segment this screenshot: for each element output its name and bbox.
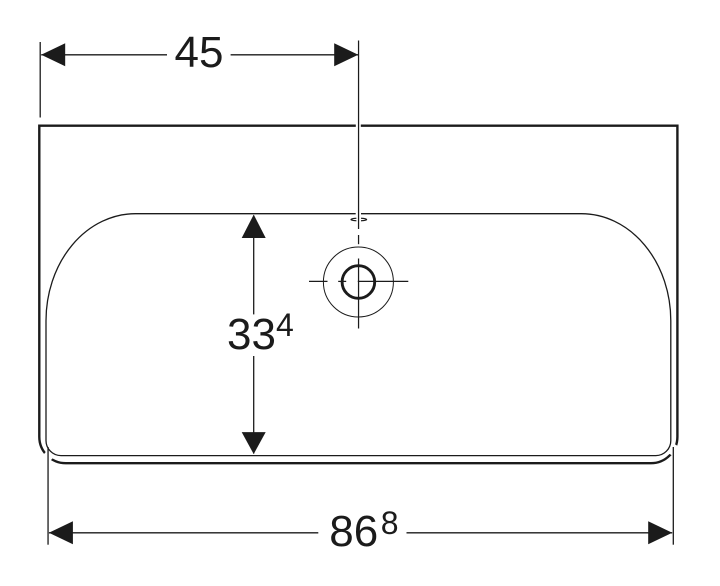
svg-text:33: 33 bbox=[227, 310, 276, 359]
svg-text:4: 4 bbox=[276, 307, 294, 343]
svg-text:8: 8 bbox=[381, 505, 399, 541]
svg-text:45: 45 bbox=[175, 28, 224, 77]
svg-text:86: 86 bbox=[329, 507, 378, 556]
